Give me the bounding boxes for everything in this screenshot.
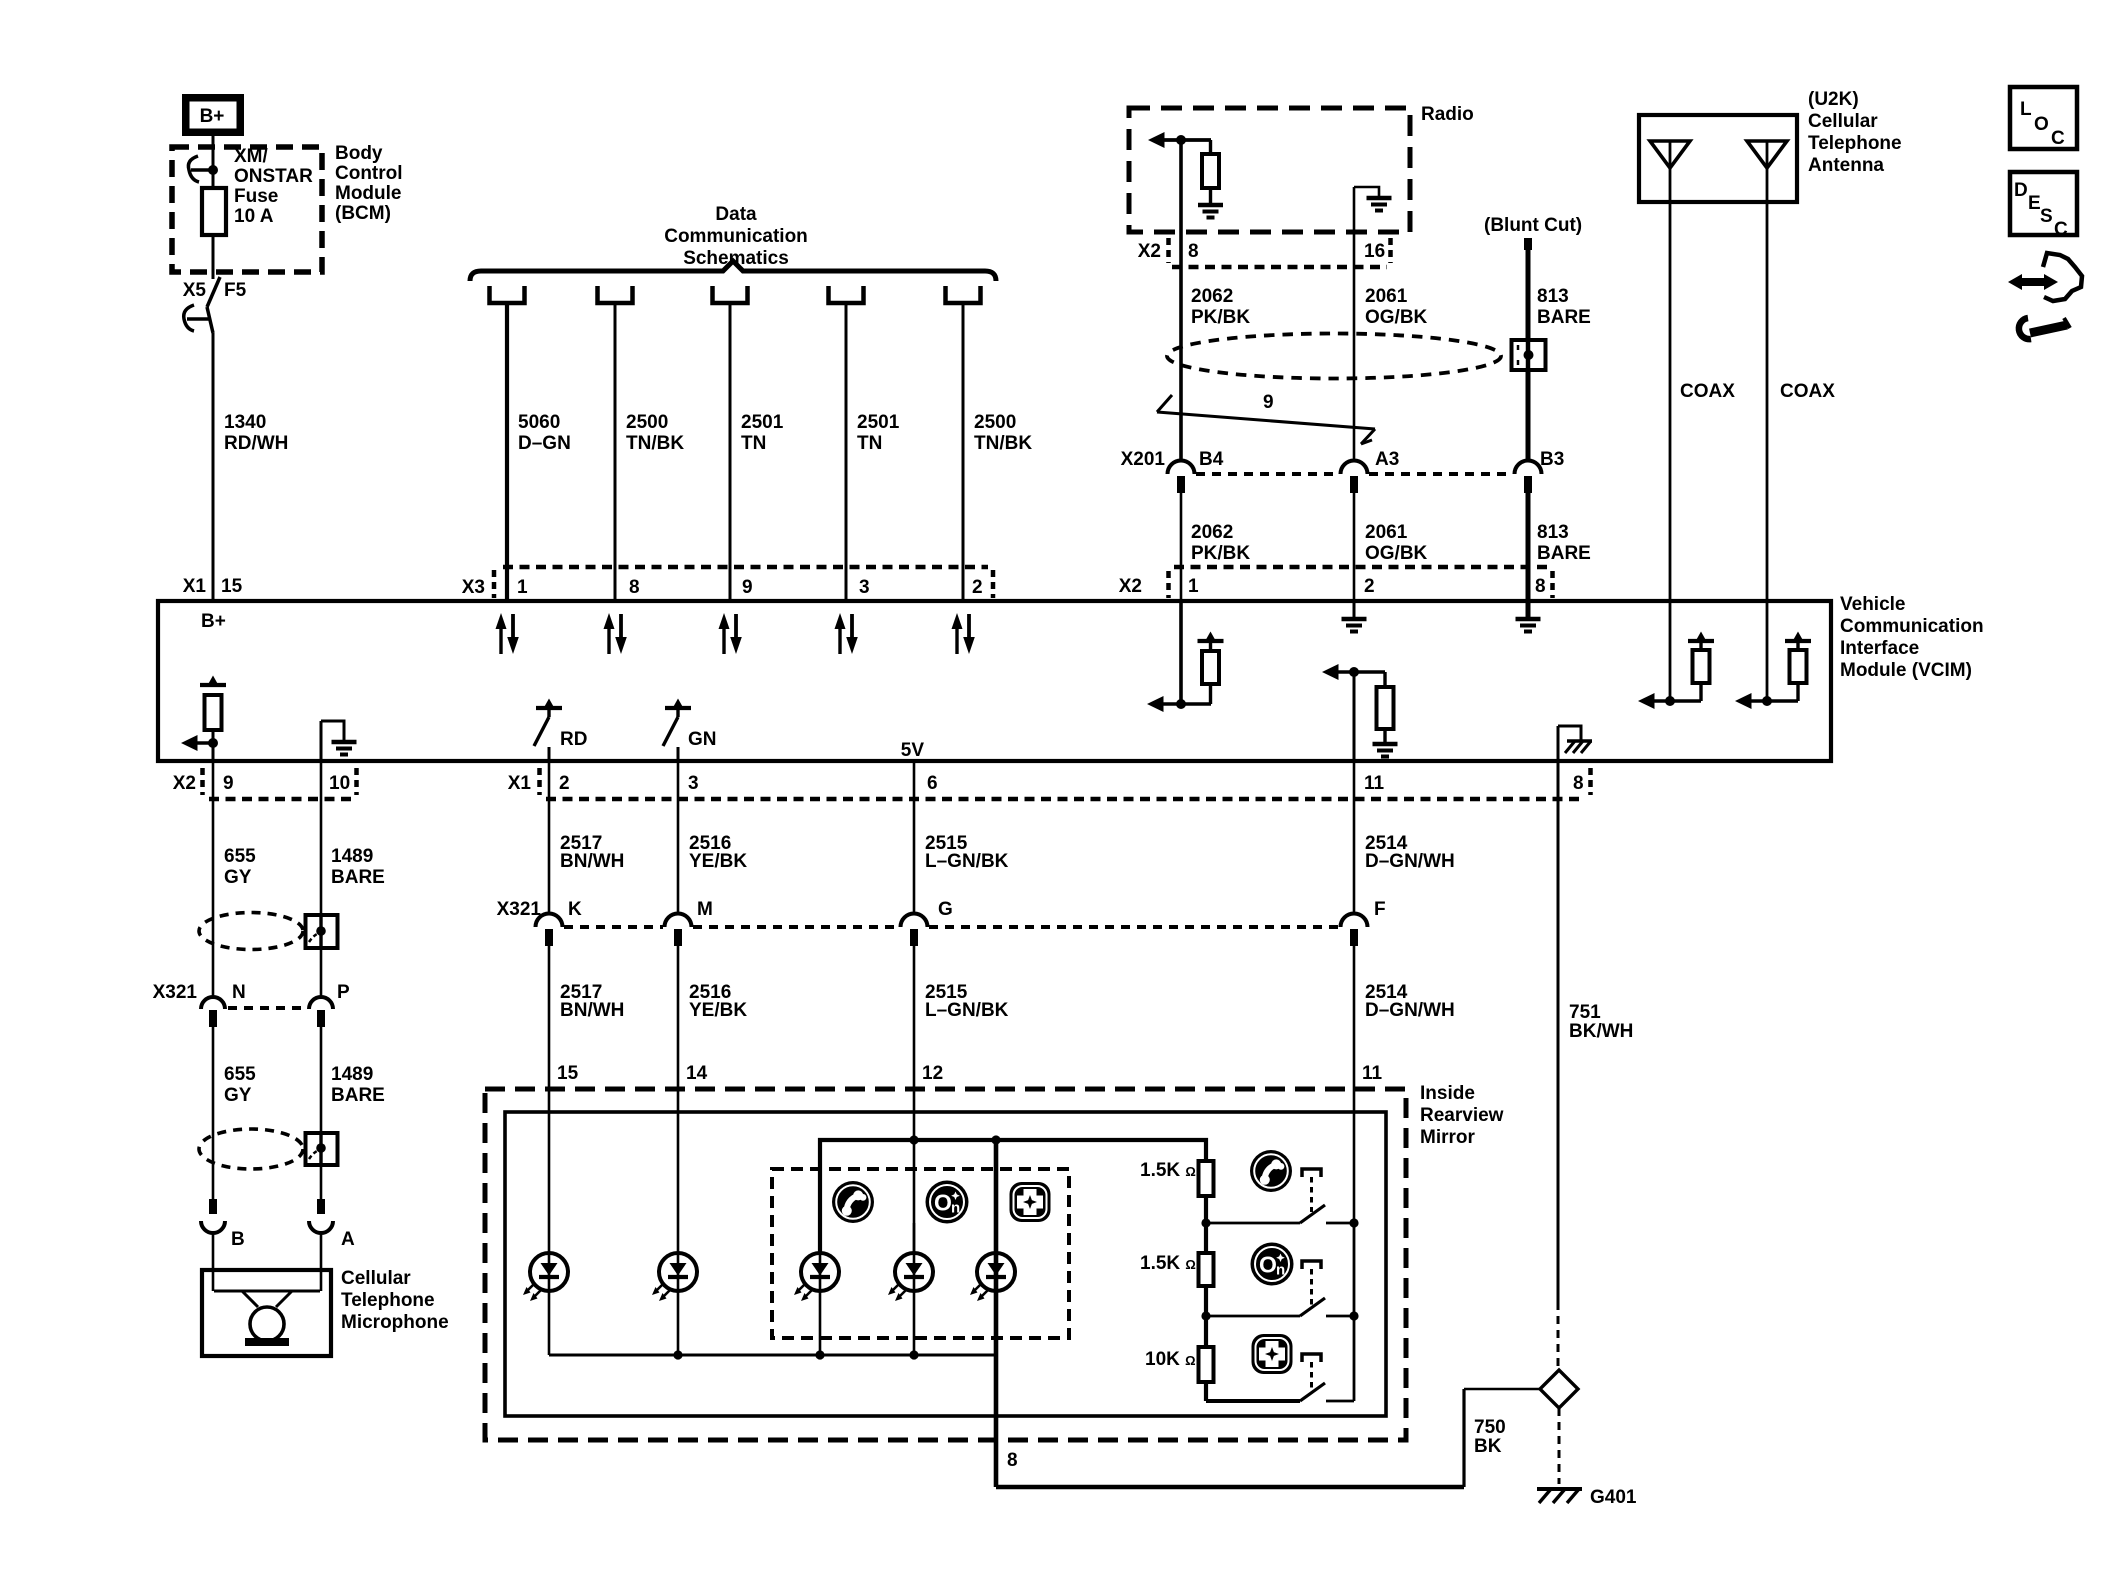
svg-text:1489: 1489 bbox=[331, 1064, 373, 1085]
wire 2061 OG/BK runs bbox=[1353, 268, 1356, 460]
svg-text:B+: B+ bbox=[201, 611, 226, 632]
B+ battery feed box bbox=[182, 94, 244, 136]
radio internal: data out wire bbox=[1179, 140, 1183, 460]
wire 813 BARE upper run bbox=[1526, 246, 1531, 460]
svg-text:2061: 2061 bbox=[1365, 522, 1408, 543]
svg-text:2: 2 bbox=[559, 773, 570, 794]
dashed wire below diamond bbox=[1558, 1408, 1561, 1484]
wire pin 11 to switch outputs bbox=[1353, 1223, 1356, 1401]
wire 1340 RD/WH from B+ to VCIM X1-15 bbox=[212, 132, 215, 279]
svg-text:BK/WH: BK/WH bbox=[1569, 1021, 1633, 1042]
wire label 813 BARE lower bbox=[1537, 522, 1591, 564]
wire 5060 D-GN bbox=[505, 303, 509, 601]
svg-text:1: 1 bbox=[517, 577, 528, 598]
ground G401 bbox=[1537, 1487, 1637, 1508]
svg-text:X2: X2 bbox=[1119, 576, 1142, 597]
ground symbol pin 10 bbox=[332, 742, 357, 755]
svg-text:Microphone: Microphone bbox=[341, 1312, 449, 1333]
svg-text:(BCM): (BCM) bbox=[335, 203, 391, 224]
VCIM internal: ground hook pin 10 bbox=[321, 721, 344, 761]
svg-text:2062: 2062 bbox=[1191, 522, 1233, 543]
VCIM internal: coax 2 termination bbox=[1735, 632, 1811, 710]
brace over data lines bbox=[470, 261, 996, 281]
svg-text:Telephone: Telephone bbox=[1808, 133, 1902, 154]
radio internal: arrow and pullup bbox=[1148, 132, 1223, 218]
wire 2515 L-GN/BK lower bbox=[913, 946, 916, 1253]
wire label 2515 L-GN/BK lower bbox=[925, 982, 1009, 1021]
node junction switch1 right bbox=[1349, 1218, 1358, 1227]
svg-text:X2: X2 bbox=[1138, 241, 1161, 262]
wire label 2061 OG/BK lower bbox=[1365, 522, 1428, 564]
resistor chain phone icon bbox=[1250, 1150, 1292, 1192]
wire 2501 TN right bbox=[845, 303, 848, 601]
wire label 655 GY upper bbox=[224, 846, 256, 888]
svg-text:D–GN/WH: D–GN/WH bbox=[1365, 1000, 1455, 1021]
svg-text:TN/BK: TN/BK bbox=[626, 433, 684, 454]
resistor 10K bbox=[1199, 1347, 1214, 1382]
wire 2514 D-GN/WH lower bbox=[1353, 946, 1356, 1223]
data connector U-terminal 2 bbox=[598, 286, 633, 303]
node junction pin 11 bbox=[1349, 667, 1359, 677]
svg-text:8: 8 bbox=[1188, 241, 1199, 262]
svg-text:BARE: BARE bbox=[331, 867, 385, 888]
svg-text:D–GN/WH: D–GN/WH bbox=[1365, 851, 1455, 872]
node junction bus pin12 bbox=[909, 1135, 918, 1144]
switch 2 actuator bbox=[1302, 1261, 1321, 1305]
coax wire 2 bbox=[1766, 141, 1769, 701]
svg-text:9: 9 bbox=[1263, 392, 1274, 413]
svg-text:K: K bbox=[568, 899, 582, 920]
svg-text:Mirror: Mirror bbox=[1420, 1127, 1476, 1148]
cellular telephone microphone box bbox=[202, 1270, 331, 1356]
wire label 1489 BARE upper bbox=[331, 846, 385, 888]
svg-text:D: D bbox=[2014, 180, 2028, 201]
wire 2516 YE/BK lower bbox=[677, 946, 680, 1253]
switch 1 output line bbox=[1206, 1222, 1300, 1225]
wire label 2501 TN bbox=[857, 412, 900, 454]
svg-text:10 A: 10 A bbox=[234, 206, 274, 227]
wire label 1489 BARE lower bbox=[331, 1064, 385, 1106]
svg-text:TN/BK: TN/BK bbox=[974, 433, 1032, 454]
svg-text:F5: F5 bbox=[224, 280, 247, 301]
LOC icon box bbox=[2010, 87, 2077, 149]
shield ellipse 1 bbox=[199, 913, 303, 950]
svg-text:1: 1 bbox=[1188, 576, 1199, 597]
svg-text:1.5K Ω: 1.5K Ω bbox=[1140, 1253, 1196, 1274]
svg-text:M: M bbox=[697, 899, 713, 920]
svg-text:Interface: Interface bbox=[1840, 638, 1919, 659]
connector X201 row (B4, A3, B3) bbox=[1121, 449, 1565, 493]
wire label 2515 L-GN/BK upper bbox=[925, 833, 1009, 872]
svg-text:Data: Data bbox=[715, 204, 757, 225]
svg-text:813: 813 bbox=[1537, 522, 1569, 543]
svg-text:YE/BK: YE/BK bbox=[689, 1000, 747, 1021]
microphone symbol bbox=[214, 1291, 320, 1346]
terminal clip at B+ feed bbox=[188, 156, 213, 182]
svg-text:10K Ω: 10K Ω bbox=[1145, 1349, 1196, 1370]
mirror inner module box bbox=[505, 1112, 1386, 1416]
svg-text:Communication: Communication bbox=[1840, 616, 1984, 637]
wrench icon bbox=[2019, 318, 2070, 339]
wire label 2500 TN/BK bbox=[626, 412, 684, 454]
node junction X2-1 bbox=[1176, 699, 1186, 709]
connector X1 row (pins 2,3,6,11,8) bbox=[508, 768, 1591, 799]
svg-text:Communication: Communication bbox=[664, 226, 808, 247]
svg-text:1489: 1489 bbox=[331, 846, 373, 867]
data connector U-terminal 5 bbox=[946, 286, 981, 303]
svg-text:PK/BK: PK/BK bbox=[1191, 307, 1250, 328]
wire pin 12 through bus to LED4 bbox=[913, 1223, 916, 1355]
node junction cathode led4 bbox=[909, 1350, 918, 1359]
svg-text:A: A bbox=[341, 1229, 355, 1250]
svg-text:BARE: BARE bbox=[1537, 307, 1591, 328]
bidirectional arrows data line 5 bbox=[952, 613, 975, 654]
svg-text:PK/BK: PK/BK bbox=[1191, 543, 1250, 564]
svg-text:X321: X321 bbox=[153, 982, 198, 1003]
svg-text:OG/BK: OG/BK bbox=[1365, 543, 1428, 564]
connector X321 row (K, M, G, F) bbox=[497, 899, 1386, 946]
svg-text:S: S bbox=[2040, 206, 2053, 227]
svg-text:COAX: COAX bbox=[1680, 381, 1735, 402]
svg-text:D–GN: D–GN bbox=[518, 433, 571, 454]
mirror label bbox=[1420, 1083, 1504, 1148]
wire 2500 TN/BK right bbox=[962, 303, 965, 601]
wire 1489 BARE upper bbox=[320, 761, 323, 997]
connector X3 row bbox=[462, 567, 993, 598]
svg-text:GY: GY bbox=[224, 867, 252, 888]
svg-text:11: 11 bbox=[1362, 1063, 1383, 1084]
shield drain box on 813 bbox=[1512, 340, 1546, 370]
svg-text:P: P bbox=[337, 982, 350, 1003]
ground X2-2 bbox=[1342, 601, 1367, 632]
output arrow pin 9 bbox=[181, 735, 213, 751]
svg-text:B: B bbox=[231, 1229, 245, 1250]
svg-text:2501: 2501 bbox=[741, 412, 784, 433]
svg-text:5060: 5060 bbox=[518, 412, 560, 433]
wire label 2062 PK/BK lower bbox=[1191, 522, 1250, 564]
svg-text:Module: Module bbox=[335, 183, 402, 204]
wire label 5060 D-GN bbox=[518, 412, 571, 454]
connector X2 row (pins 9,10) bbox=[173, 768, 357, 799]
node junction switch2 right bbox=[1349, 1311, 1358, 1320]
connector X2 row at radio (pins 8,16) bbox=[1138, 238, 1391, 267]
twisted pair callout 9 bbox=[1157, 392, 1375, 444]
VCIM internal: chassis ground pin 8 bbox=[1558, 726, 1592, 761]
switch 3 output line bbox=[1206, 1399, 1300, 1403]
wire 2517 BN/WH upper bbox=[548, 761, 551, 915]
splice diamond bbox=[1540, 1370, 1578, 1408]
svg-text:L–GN/BK: L–GN/BK bbox=[925, 851, 1009, 872]
svg-text:Antenna: Antenna bbox=[1808, 155, 1884, 176]
node: junction on B+ wire bbox=[208, 165, 218, 175]
svg-text:RD/WH: RD/WH bbox=[224, 433, 288, 454]
fuse label bbox=[234, 146, 313, 227]
wire label 2516 YE/BK upper bbox=[689, 833, 747, 872]
wire 751 BK/WH bbox=[1557, 761, 1560, 1302]
svg-text:BARE: BARE bbox=[1537, 543, 1591, 564]
resistor pullup pin 9 bbox=[205, 695, 222, 730]
svg-text:2062: 2062 bbox=[1191, 286, 1233, 307]
shield twisted pair ellipse bbox=[1167, 334, 1501, 379]
resistor chain OnStar icon bbox=[1251, 1243, 1294, 1286]
svg-text:Module (VCIM): Module (VCIM) bbox=[1840, 660, 1972, 681]
bidirectional arrows data line 1 bbox=[496, 613, 519, 654]
svg-text:XM/: XM/ bbox=[234, 146, 269, 167]
svg-text:8: 8 bbox=[1573, 773, 1584, 794]
svg-text:8: 8 bbox=[629, 577, 640, 598]
wire 1489 BARE lower bbox=[320, 1027, 323, 1200]
svg-text:751: 751 bbox=[1569, 1002, 1601, 1023]
svg-text:(Blunt Cut): (Blunt Cut) bbox=[1484, 215, 1582, 236]
wire label 1340 RD/WH bbox=[224, 412, 288, 454]
svg-text:2: 2 bbox=[972, 577, 983, 598]
dashed wire above diamond bbox=[1557, 1302, 1560, 1370]
svg-text:15: 15 bbox=[221, 576, 243, 597]
svg-text:655: 655 bbox=[224, 846, 256, 867]
svg-text:ONSTAR: ONSTAR bbox=[234, 166, 313, 187]
wire 813 BARE lower run bbox=[1526, 493, 1531, 601]
svg-text:15: 15 bbox=[557, 1063, 579, 1084]
wire label 2514 D-GN/WH upper bbox=[1365, 833, 1455, 872]
svg-text:B4: B4 bbox=[1199, 449, 1224, 470]
VCIM internal: coax 1 termination bbox=[1638, 632, 1714, 710]
svg-text:COAX: COAX bbox=[1780, 381, 1835, 402]
svg-text:813: 813 bbox=[1537, 286, 1569, 307]
BCM label bbox=[335, 143, 403, 224]
svg-text:16: 16 bbox=[1364, 241, 1385, 262]
svg-text:BN/WH: BN/WH bbox=[560, 851, 624, 872]
wire 2516 YE/BK upper bbox=[677, 761, 680, 915]
svg-text:2: 2 bbox=[1364, 576, 1375, 597]
phone button icon bbox=[832, 1181, 874, 1223]
cellular telephone antenna box bbox=[1639, 115, 1797, 202]
shield drain box 2 bbox=[306, 1133, 338, 1165]
svg-text:10: 10 bbox=[329, 773, 350, 794]
svg-text:Radio: Radio bbox=[1421, 104, 1474, 125]
svg-text:2500: 2500 bbox=[974, 412, 1016, 433]
wire label 655 GY lower bbox=[224, 1064, 256, 1106]
fuse XM/ONSTAR 10A bbox=[202, 188, 226, 235]
Radio dashed box bbox=[1129, 108, 1410, 232]
VCIM internal: supply bar over pullup (pin 9 circuit) bbox=[200, 676, 226, 686]
svg-text:9: 9 bbox=[223, 773, 234, 794]
bidirectional arrows data line 2 bbox=[604, 613, 627, 654]
switch 2 blade bbox=[1300, 1298, 1325, 1316]
svg-text:BK: BK bbox=[1474, 1436, 1502, 1457]
wire label 2516 YE/BK lower bbox=[689, 982, 747, 1021]
terminal clip below X5/F5 bbox=[184, 305, 209, 331]
shield ellipse 2 bbox=[199, 1129, 303, 1169]
svg-text:Cellular: Cellular bbox=[1808, 111, 1878, 132]
wire pin 14 into LED2 bbox=[677, 1253, 680, 1355]
data connector U-terminal 3 bbox=[713, 286, 748, 303]
switch 3 actuator bbox=[1302, 1354, 1321, 1390]
wire label 2514 D-GN/WH lower bbox=[1365, 982, 1455, 1021]
DESC icon box bbox=[2010, 172, 2077, 240]
radio internal: ground pin 16 bbox=[1354, 187, 1392, 268]
wire label 2062 PK/BK upper bbox=[1191, 286, 1250, 328]
VCIM internal: radio data in (X2-1) wire bbox=[1179, 601, 1183, 704]
resistor ladder feed bbox=[1204, 1196, 1208, 1253]
LED cathode bus bbox=[549, 1354, 996, 1357]
LED 4 bbox=[888, 1253, 933, 1301]
svg-text:X1: X1 bbox=[508, 773, 532, 794]
svg-text:9: 9 bbox=[742, 577, 753, 598]
wire label 751 BK/WH bbox=[1569, 1002, 1633, 1042]
wire 2514 D-GN/WH upper bbox=[1353, 761, 1356, 915]
svg-text:E: E bbox=[2028, 193, 2041, 214]
svg-text:Control: Control bbox=[335, 163, 403, 184]
wire label 2061 OG/BK upper bbox=[1365, 286, 1428, 328]
svg-text:O: O bbox=[2034, 114, 2049, 135]
LED 3 bbox=[794, 1253, 839, 1301]
svg-text:N: N bbox=[232, 982, 246, 1003]
svg-text:Rearview: Rearview bbox=[1420, 1105, 1504, 1126]
wire 750 BK run bbox=[996, 1389, 1540, 1487]
svg-text:C: C bbox=[2054, 219, 2068, 240]
wire label 2517 BN/WH upper bbox=[560, 833, 624, 872]
Body Control Module dashed box bbox=[172, 147, 322, 272]
svg-text:X201: X201 bbox=[1121, 449, 1166, 470]
resistor chain emergency icon bbox=[1252, 1334, 1293, 1374]
node junction bus common bbox=[991, 1135, 1000, 1144]
node junction cathode 14 bbox=[673, 1350, 682, 1359]
wire pin 15 into LED1 bbox=[548, 1253, 551, 1355]
svg-text:Inside: Inside bbox=[1420, 1083, 1475, 1104]
svg-text:TN: TN bbox=[741, 433, 766, 454]
svg-text:F: F bbox=[1374, 899, 1386, 920]
wire 655 GY upper bbox=[212, 761, 215, 997]
svg-text:X5: X5 bbox=[183, 280, 207, 301]
svg-text:5V: 5V bbox=[901, 740, 925, 761]
OnStar button icon bbox=[926, 1181, 969, 1224]
wire 813 BARE blunt cut end bbox=[1524, 238, 1532, 250]
data connector U-terminal 1 bbox=[490, 286, 525, 303]
LED 2 bbox=[652, 1253, 697, 1301]
svg-text:X1: X1 bbox=[183, 576, 207, 597]
svg-text:Cellular: Cellular bbox=[341, 1268, 411, 1289]
svg-text:Fuse: Fuse bbox=[234, 186, 278, 207]
svg-text:(U2K): (U2K) bbox=[1808, 89, 1859, 110]
switch 2 output line bbox=[1206, 1315, 1300, 1318]
wire 2501 TN left bbox=[729, 303, 732, 601]
microphone label bbox=[341, 1268, 449, 1333]
emergency button icon bbox=[1010, 1182, 1051, 1222]
svg-text:Vehicle: Vehicle bbox=[1840, 594, 1906, 615]
node junction switch1 left bbox=[1201, 1218, 1210, 1227]
keypad dashed box bbox=[772, 1169, 1069, 1338]
connector B/A at microphone bbox=[201, 1199, 355, 1250]
wire 655 GY lower bbox=[212, 1027, 215, 1200]
connector X2 row above VCIM (pins 1,2,8) bbox=[1119, 567, 1553, 598]
svg-text:G: G bbox=[938, 899, 953, 920]
VCIM internal: switch RD bbox=[534, 699, 587, 762]
svg-text:RD: RD bbox=[560, 729, 587, 750]
node junction switch2 left bbox=[1201, 1311, 1210, 1320]
svg-text:6: 6 bbox=[927, 773, 938, 794]
wire 2515 L-GN/BK upper bbox=[913, 761, 916, 915]
svg-text:BN/WH: BN/WH bbox=[560, 1000, 624, 1021]
svg-text:C: C bbox=[2051, 128, 2065, 149]
svg-text:3: 3 bbox=[688, 773, 699, 794]
connector X5/F5 slash through wire bbox=[207, 277, 220, 333]
svg-text:2061: 2061 bbox=[1365, 286, 1408, 307]
wire label 750 BK bbox=[1474, 1417, 1506, 1457]
bidirectional arrows data line 3 bbox=[719, 613, 742, 654]
svg-text:1.5K Ω: 1.5K Ω bbox=[1140, 1160, 1196, 1181]
wire resistor to junction bbox=[212, 730, 215, 761]
wire into mic A bbox=[320, 1232, 323, 1291]
Vehicle Communication Interface Module box bbox=[158, 601, 1831, 761]
LED supply bus bbox=[820, 1140, 1206, 1253]
wire pin 11 inside VCIM bbox=[1353, 672, 1356, 761]
switch 1 blade bbox=[1300, 1205, 1325, 1223]
bidirectional arrows data line 4 bbox=[835, 613, 858, 654]
svg-text:G401: G401 bbox=[1590, 1487, 1637, 1508]
svg-text:750: 750 bbox=[1474, 1417, 1506, 1438]
svg-text:1340: 1340 bbox=[224, 412, 266, 433]
swap arrow icon bbox=[2008, 253, 2082, 301]
svg-text:L: L bbox=[2020, 99, 2032, 120]
svg-text:8: 8 bbox=[1535, 576, 1546, 597]
coax wire 1 bbox=[1669, 141, 1672, 701]
svg-text:A3: A3 bbox=[1375, 449, 1399, 470]
ground X2-8 drain bbox=[1516, 601, 1541, 632]
wire led3 cathode bbox=[819, 1253, 822, 1355]
data communication schematics caption bbox=[664, 204, 808, 269]
wire into mic B bbox=[212, 1232, 215, 1291]
resistor 1.5K (2) bbox=[1199, 1253, 1214, 1286]
wire 2500 TN/BK left bbox=[614, 303, 617, 601]
data connector U-terminal 4 bbox=[829, 286, 864, 303]
connector X5/F5 labels bbox=[183, 280, 247, 301]
node junction pin 9 bbox=[208, 738, 218, 748]
LED 1 bbox=[523, 1253, 568, 1301]
resistor 1.5K (1) bbox=[1199, 1161, 1214, 1196]
switch 1 actuator bbox=[1302, 1169, 1321, 1212]
svg-text:2500: 2500 bbox=[626, 412, 668, 433]
node junction coax 1 bbox=[1665, 696, 1675, 706]
svg-text:Body: Body bbox=[335, 143, 383, 164]
wire 2517 BN/WH lower bbox=[548, 946, 551, 1253]
antenna element 1 bbox=[1650, 141, 1690, 168]
svg-text:GN: GN bbox=[688, 729, 717, 750]
svg-text:B+: B+ bbox=[200, 106, 225, 127]
svg-text:GY: GY bbox=[224, 1085, 252, 1106]
svg-text:X2: X2 bbox=[173, 773, 196, 794]
node junction cathode led3 bbox=[815, 1350, 824, 1359]
VCIM internal: switch GN bbox=[663, 699, 717, 762]
svg-text:3: 3 bbox=[859, 577, 870, 598]
pullup resistor X2-1 bbox=[1198, 632, 1224, 705]
svg-text:Telephone: Telephone bbox=[341, 1290, 435, 1311]
svg-text:TN: TN bbox=[857, 433, 882, 454]
svg-text:655: 655 bbox=[224, 1064, 256, 1085]
svg-text:OG/BK: OG/BK bbox=[1365, 307, 1428, 328]
shield drain box 1 bbox=[306, 915, 338, 948]
wire label 2517 BN/WH lower bbox=[560, 982, 624, 1021]
VCIM internal: pin 11 sense circuit bbox=[1322, 664, 1398, 757]
LED 5 bbox=[970, 1253, 1015, 1301]
wire 2062 PK/BK lower run bbox=[1180, 493, 1183, 601]
wire label 813 BARE upper bbox=[1537, 286, 1591, 328]
connector X321 row (N, P) bbox=[153, 982, 350, 1027]
antenna label bbox=[1808, 89, 1902, 176]
svg-text:L–GN/BK: L–GN/BK bbox=[925, 1000, 1009, 1021]
svg-text:12: 12 bbox=[922, 1063, 943, 1084]
receive arrow X2-1 bbox=[1147, 696, 1211, 712]
svg-text:11: 11 bbox=[1364, 773, 1385, 794]
